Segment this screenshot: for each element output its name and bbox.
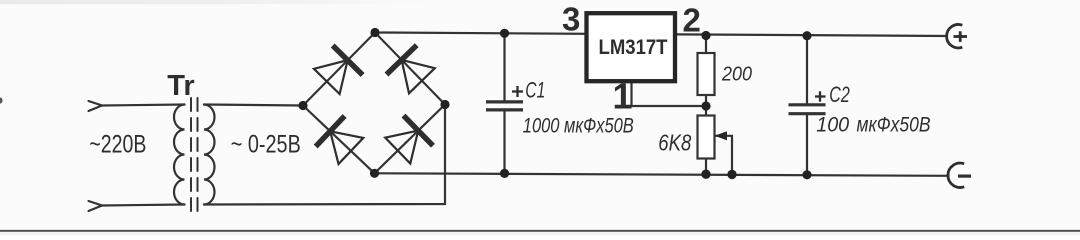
svg-text:C2: C2	[829, 82, 850, 107]
svg-text:1: 1	[613, 75, 633, 116]
svg-text:3: 3	[562, 0, 580, 37]
svg-text:1000 мкФх50В: 1000 мкФх50В	[523, 113, 634, 137]
svg-text:~ 0-25В: ~ 0-25В	[231, 130, 301, 158]
svg-text:мкФх50В: мкФх50В	[857, 113, 931, 137]
svg-text:100: 100	[816, 113, 849, 137]
svg-text:C1: C1	[525, 77, 545, 102]
svg-text:~220В: ~220В	[89, 130, 146, 158]
svg-text:200: 200	[721, 63, 752, 85]
svg-text:2: 2	[683, 1, 701, 38]
svg-text:6K8: 6K8	[658, 129, 691, 155]
svg-text:Tr: Tr	[167, 70, 194, 102]
svg-text:LM317T: LM317T	[599, 36, 668, 59]
